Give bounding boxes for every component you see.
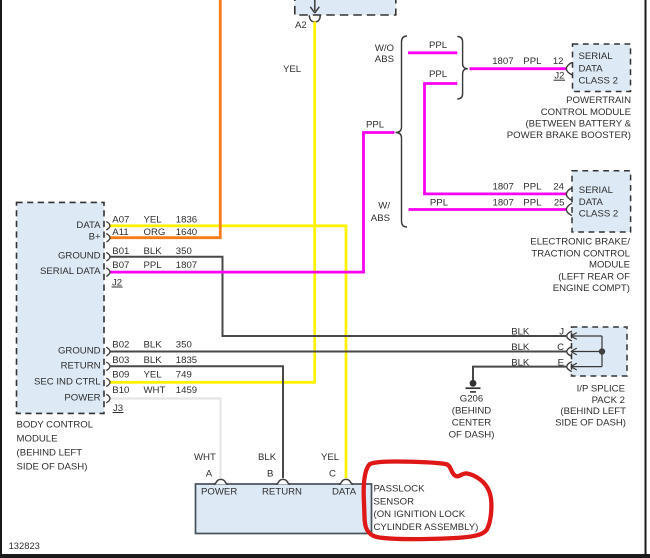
svg-text:B01: B01 xyxy=(112,246,129,257)
brace left (splits serial data) xyxy=(396,36,408,227)
svg-text:BODY CONTROL: BODY CONTROL xyxy=(17,419,94,430)
svg-text:350: 350 xyxy=(176,246,192,257)
svg-text:I/P SPLICE: I/P SPLICE xyxy=(577,384,625,395)
svg-text:B07: B07 xyxy=(112,260,129,271)
svg-text:DATA: DATA xyxy=(579,64,604,75)
svg-text:12: 12 xyxy=(553,56,564,67)
wire WHT B10 POWER from BCM to passlock A xyxy=(110,399,221,479)
svg-text:RETURN: RETURN xyxy=(61,360,101,371)
svg-text:WHT: WHT xyxy=(144,385,166,396)
wire PPL B07 SERIAL DATA from BCM to brace xyxy=(110,133,395,273)
svg-text:YEL: YEL xyxy=(144,370,163,381)
EBTCM serial data class 2 box xyxy=(572,171,631,232)
connector arc EBTCM pin 25 xyxy=(566,203,571,215)
connector arc EBTCM pin 24 xyxy=(566,188,571,200)
wire BLK B02 from BCM to splice pack pin C xyxy=(110,351,566,353)
svg-text:RETURN: RETURN xyxy=(262,487,302,498)
svg-text:PPL: PPL xyxy=(429,69,448,80)
svg-text:MODULE: MODULE xyxy=(17,433,58,444)
svg-text:1807: 1807 xyxy=(176,260,197,271)
svg-text:C: C xyxy=(557,342,564,353)
passlock pin domes xyxy=(214,479,228,484)
svg-text:BLK: BLK xyxy=(511,342,530,353)
svg-text:G206: G206 xyxy=(460,394,483,405)
wire BLK B03 RETURN from BCM to passlock B xyxy=(110,366,283,478)
pin A2 connector cup xyxy=(309,15,320,22)
svg-text:DATA: DATA xyxy=(579,197,604,208)
svg-text:POWER: POWER xyxy=(201,487,237,498)
svg-text:B10: B10 xyxy=(112,385,129,396)
splice bus xyxy=(601,336,603,367)
svg-text:CONTROL MODULE: CONTROL MODULE xyxy=(541,107,631,118)
brace right (joins w/o abs pair) xyxy=(457,37,468,100)
svg-text:A07: A07 xyxy=(112,215,129,226)
svg-text:OF DASH): OF DASH) xyxy=(449,430,495,441)
svg-text:CYLINDER ASSEMBLY): CYLINDER ASSEMBLY) xyxy=(374,522,479,533)
svg-text:SERIAL: SERIAL xyxy=(579,185,614,196)
ignition lock module box (partial, top) xyxy=(295,0,396,15)
BCM pin arcs xyxy=(106,222,110,231)
svg-text:PPL: PPL xyxy=(366,120,385,131)
wire BLK B01 GROUND from BCM to splice pack pin J xyxy=(110,257,566,336)
svg-text:ELECTRONIC BRAKE/: ELECTRONIC BRAKE/ xyxy=(530,236,630,247)
svg-text:YEL: YEL xyxy=(144,215,163,226)
svg-text:GROUND: GROUND xyxy=(58,346,101,357)
svg-text:1640: 1640 xyxy=(176,227,197,238)
svg-text:1807: 1807 xyxy=(492,56,513,67)
body control module box xyxy=(17,202,105,413)
svg-text:SERIAL: SERIAL xyxy=(579,51,614,62)
wire PPL w/o abs lower, down to EBTCM pin 24 xyxy=(425,84,567,194)
svg-text:749: 749 xyxy=(176,370,192,381)
svg-text:BLK: BLK xyxy=(144,355,163,366)
svg-text:(BEHIND: (BEHIND xyxy=(452,406,492,417)
wire PPL 1807 to PCM pin 12 xyxy=(470,67,567,70)
svg-text:1807: 1807 xyxy=(493,182,514,193)
passlock sensor box xyxy=(196,484,372,534)
svg-text:1836: 1836 xyxy=(176,215,197,226)
svg-text:(BETWEEN BATTERY &: (BETWEEN BATTERY & xyxy=(525,119,631,130)
wire PPL w/o abs upper xyxy=(408,51,457,54)
svg-text:350: 350 xyxy=(176,340,192,351)
svg-text:A11: A11 xyxy=(112,227,128,238)
svg-text:YEL: YEL xyxy=(283,64,302,75)
svg-text:PPL: PPL xyxy=(523,182,542,193)
svg-text:PPL: PPL xyxy=(144,260,163,271)
splice pin E connector xyxy=(567,362,602,372)
svg-text:ABS: ABS xyxy=(375,54,394,65)
svg-text:ENGINE COMPT): ENGINE COMPT) xyxy=(553,283,630,294)
svg-text:PASSLOCK: PASSLOCK xyxy=(374,484,426,495)
red annotation oval xyxy=(364,461,492,539)
ground G206 symbol xyxy=(466,380,481,392)
svg-text:PACK 2: PACK 2 xyxy=(592,395,625,406)
svg-text:24: 24 xyxy=(553,182,564,193)
svg-text:1807: 1807 xyxy=(493,198,514,209)
wire ORG A11 B+ from BCM up to top xyxy=(110,0,220,238)
svg-text:B03: B03 xyxy=(112,355,129,366)
wire BLK splice pin E to G206 xyxy=(473,367,566,381)
svg-text:SEC IND CTRL: SEC IND CTRL xyxy=(34,376,101,387)
pin A2 arrow xyxy=(310,0,319,13)
svg-text:ABS: ABS xyxy=(371,213,390,224)
PCM serial data class 2 box xyxy=(573,44,631,92)
svg-text:BLK: BLK xyxy=(511,357,530,368)
svg-text:1459: 1459 xyxy=(176,385,197,396)
svg-text:A: A xyxy=(206,469,213,480)
svg-text:132823: 132823 xyxy=(9,540,40,551)
svg-text:CLASS 2: CLASS 2 xyxy=(579,76,618,87)
connector arc PCM pin 12 xyxy=(566,63,571,75)
wire PPL w/ abs to EBTCM pin 25 xyxy=(409,208,567,211)
svg-text:SIDE OF DASH): SIDE OF DASH) xyxy=(17,461,88,472)
svg-text:W/O: W/O xyxy=(375,43,394,54)
svg-text:B+: B+ xyxy=(89,232,101,243)
svg-text:(BEHIND LEFT: (BEHIND LEFT xyxy=(560,406,626,417)
svg-text:J: J xyxy=(559,327,564,338)
splice pin C connector xyxy=(567,347,602,357)
svg-text:A2: A2 xyxy=(295,20,307,31)
svg-text:B02: B02 xyxy=(112,340,129,351)
svg-text:C: C xyxy=(329,469,336,480)
svg-text:W/: W/ xyxy=(378,201,390,212)
svg-text:BLK: BLK xyxy=(511,327,530,338)
svg-text:SIDE OF DASH): SIDE OF DASH) xyxy=(555,417,626,428)
splice junction dot xyxy=(599,348,605,354)
svg-text:ORG: ORG xyxy=(144,227,166,238)
svg-text:1835: 1835 xyxy=(176,355,197,366)
svg-text:POWERTRAIN: POWERTRAIN xyxy=(566,95,631,106)
svg-text:PPL: PPL xyxy=(523,56,542,67)
wire YEL A07 DATA from BCM to passlock C xyxy=(110,226,346,478)
svg-text:PPL: PPL xyxy=(523,198,542,209)
svg-text:DATA: DATA xyxy=(76,220,101,231)
svg-text:PPL: PPL xyxy=(430,198,449,209)
svg-text:POWER BRAKE BOOSTER): POWER BRAKE BOOSTER) xyxy=(507,130,631,141)
splice pin J connector xyxy=(567,331,602,341)
I/P splice pack 2 box xyxy=(572,327,628,376)
svg-text:B09: B09 xyxy=(112,370,129,381)
svg-text:GROUND: GROUND xyxy=(58,251,101,262)
svg-text:POWER: POWER xyxy=(64,393,100,404)
svg-text:CLASS 2: CLASS 2 xyxy=(579,209,618,220)
svg-text:B: B xyxy=(267,469,273,480)
svg-text:(LEFT REAR OF: (LEFT REAR OF xyxy=(558,271,630,282)
svg-text:BLK: BLK xyxy=(144,246,163,257)
svg-text:E: E xyxy=(558,357,564,368)
svg-text:SERIAL DATA: SERIAL DATA xyxy=(40,266,101,277)
svg-text:CENTER: CENTER xyxy=(452,418,492,429)
svg-text:PPL: PPL xyxy=(429,40,448,51)
svg-text:BLK: BLK xyxy=(258,452,277,463)
wire YEL from A2 down to BCM B09 (SEC IND CTRL) xyxy=(110,22,315,383)
svg-text:DATA: DATA xyxy=(332,487,357,498)
svg-text:(BEHIND LEFT: (BEHIND LEFT xyxy=(17,447,83,458)
svg-text:25: 25 xyxy=(554,198,565,209)
svg-text:YEL: YEL xyxy=(321,452,340,463)
svg-text:BLK: BLK xyxy=(144,340,163,351)
svg-text:WHT: WHT xyxy=(194,452,216,463)
svg-text:SENSOR: SENSOR xyxy=(374,496,415,507)
svg-text:(ON IGNITION LOCK: (ON IGNITION LOCK xyxy=(374,509,466,520)
svg-text:TRACTION CONTROL: TRACTION CONTROL xyxy=(531,248,630,259)
svg-text:MODULE: MODULE xyxy=(589,260,630,271)
